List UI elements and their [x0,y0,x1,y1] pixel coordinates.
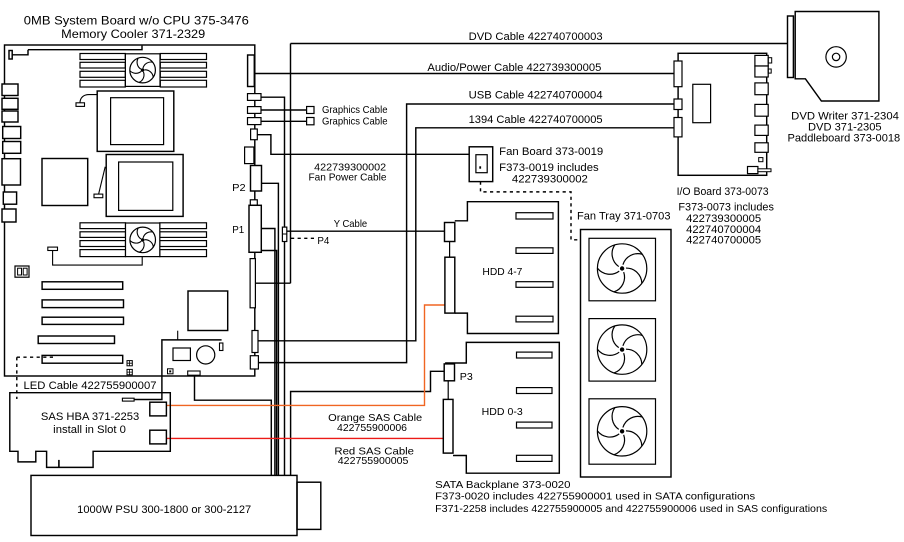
board corner connector J1 [9,51,12,60]
connector P2 [251,166,262,192]
mini header icon A [127,361,132,366]
connector P1 [249,205,261,252]
fan 2 wire [53,251,143,266]
svg-text:422755900005: 422755900005 [338,455,409,467]
svg-text:DVD 371-2305: DVD 371-2305 [808,121,882,133]
fan 1 [597,244,647,293]
wire rect1 riser to psu [261,97,285,475]
cpu fan 2 blades [130,227,156,253]
svg-text:Fan Power Cable: Fan Power Cable [309,172,387,184]
svg-text:Graphics Cable: Graphics Cable [322,104,388,116]
edge connector usb [250,356,258,369]
svg-text:Paddleboard 373-0018: Paddleboard 373-0018 [788,133,901,145]
dvd writer outline [795,12,879,102]
svg-text:USB Cable 422740700004: USB Cable 422740700004 [469,90,603,102]
svg-text:Fan Board 373-0019: Fan Board 373-0019 [499,146,603,158]
svg-text:P4: P4 [317,235,329,247]
sub-board chip [173,348,190,361]
fan 3 [597,407,647,456]
fan power connector [251,129,258,140]
HDD 0-3 long connector [443,399,453,453]
link [447,381,449,400]
svg-text:F371-2258 includes 42275590000: F371-2258 includes 422755900005 and 4227… [435,503,827,515]
fan 2 connector [48,247,58,250]
io board chip [693,84,711,122]
fan 2 [597,325,647,374]
audio connector on board edge [248,55,255,87]
pci slot 1 [42,282,123,290]
svg-text:F373-0073 includes: F373-0073 includes [678,201,774,213]
svg-text:422740700005: 422740700005 [686,235,761,247]
fan cell 1 [589,238,656,300]
svg-text:P2: P2 [232,182,246,194]
chipset square 2 [188,291,228,331]
io port 5 [755,125,768,135]
front panel header icon [15,266,29,277]
wire Y cable [287,230,445,232]
pcie key notch [58,460,60,468]
io small square [759,158,763,162]
io audio connector [674,61,682,87]
link [449,242,451,258]
wire P1b to psu [261,251,276,476]
SAS HBA card outline [10,393,171,468]
red SAS cable [166,437,443,439]
pci slot 3 [42,317,123,324]
pci slot 5 [42,355,123,363]
connector between P2 P1 [250,200,257,206]
svg-text:P3: P3 [460,371,473,383]
SAS port 0 [150,402,167,416]
HDD 4-7 long connector [445,257,455,313]
svg-text:1000W PSU 300-1800 or 300-2127: 1000W PSU 300-1800 or 300-2127 [77,504,251,516]
wire fan power [257,135,469,155]
svg-text:0MB System Board w/o CPU 375-3: 0MB System Board w/o CPU 375-3476 [24,14,249,28]
battery [197,346,215,364]
cpu 2 fan connector [94,194,103,198]
io bottom connector [748,167,758,174]
sub-board jumper [168,369,174,374]
svg-text:Y Cable: Y Cable [334,218,368,230]
cpu 2 heatsink outer [106,155,183,217]
memory slots lower right bank [160,223,207,229]
led header dashed callout [17,356,53,358]
left rear connector column [2,84,18,96]
svg-text:DVD Cable 422740700003: DVD Cable 422740700003 [469,31,603,43]
svg-text:install in Slot 0: install in Slot 0 [53,424,126,436]
graphics connector square 1 [307,107,314,114]
wire led B to psu [195,375,272,475]
io port 1 [755,55,768,66]
io 1394 connector [674,118,682,137]
cpu fan 1 frame [125,54,160,87]
edge connector 2 [248,107,262,114]
fan board inner [476,155,487,173]
led cable connector on hba [122,398,134,401]
svg-text:422755900006: 422755900006 [337,422,407,434]
io board box [678,53,767,175]
svg-text:I/O Board 373-0073: I/O Board 373-0073 [677,186,769,198]
connector P3 on backplane [444,364,454,381]
chipset square 1 [42,159,88,206]
led connector on board [188,371,200,375]
dvd disc inner [832,53,839,60]
PSU box [31,475,297,535]
HDD 4-7 slots [516,213,553,219]
edge connector 3 [248,118,262,125]
cpu 1 inner [111,98,164,145]
svg-text:SATA Backplane 373-0020: SATA Backplane 373-0020 [435,479,570,491]
wire P1 to psu [261,229,275,476]
cpu 2 fan wire [99,167,106,194]
io port 2 [755,66,768,77]
fan cell 3 [589,399,656,464]
fan board dashed callout [481,182,578,240]
dvd paddleboard bar [788,16,794,78]
svg-text:422739300005: 422739300005 [686,213,761,225]
io port 6 [755,143,768,153]
mini header icon B [127,369,132,374]
fan tray outline [581,230,672,478]
cpu fan 2 frame [126,223,160,257]
sub-board section edge [162,340,222,376]
svg-text:422739300002: 422739300002 [512,173,588,185]
pci slot 4 [38,336,114,344]
HDD 0-3 box [445,342,559,473]
board top step edge [12,46,142,55]
fan board outline [469,147,493,182]
wire dvd cable top [291,43,788,45]
cpu 1 fan connector [76,103,85,107]
wire led A to hba [134,376,162,400]
fan cell 2 [589,319,656,382]
orange SAS cable [166,305,445,405]
cpu 1 fan wire [80,95,97,103]
system board outline [5,45,255,376]
svg-text:Fan Tray 371-0703: Fan Tray 371-0703 [577,210,671,222]
dvd disc outer [826,47,846,67]
HDD 4-7 box [455,202,559,334]
wire 1394 cable [258,128,674,341]
wire audio power cable [254,73,674,75]
wire usb cable [258,104,674,363]
sub-board nub connector [220,343,223,351]
connector P4 on riser [282,227,286,241]
svg-text:SAS HBA 371-2253: SAS HBA 371-2253 [41,411,139,423]
wire graphics 1 [261,109,307,111]
cpu 2 inner [119,162,173,210]
wire P3 power [291,371,445,475]
dashed P4 callout [291,237,316,239]
HDD 4-7 Y connector [445,223,455,242]
graphics connector square 2 [307,118,314,125]
io port 3 [755,83,768,95]
io port 4 [755,104,768,116]
svg-text:Audio/Power Cable 422739300005: Audio/Power Cable 422739300005 [427,62,601,74]
svg-text:F373-0020 includes 42275590000: F373-0020 includes 422755900001 used in … [435,490,755,502]
svg-text:LED Cable 422755900007: LED Cable 422755900007 [24,380,157,392]
svg-text:Graphics Cable: Graphics Cable [322,116,388,128]
svg-text:HDD 4-7: HDD 4-7 [482,266,522,278]
memory slots upper right bank [160,54,206,60]
long thin edge connector [250,259,255,308]
HDD 0-3 slots [517,352,553,358]
wire dvd riser upper [255,44,290,284]
cpu 1 heatsink outer [97,91,174,151]
PSU side tab [297,482,321,529]
wire P2 to psu [262,183,279,475]
wire graphics 2 [261,120,307,122]
io usb connector [674,99,682,110]
memory slots upper left bank [80,54,125,60]
svg-text:1394 Cable 422740700005: 1394 Cable 422740700005 [469,114,603,126]
connector left of P2 [245,147,254,164]
memory slots lower left bank [80,223,126,229]
edge connector 1394 [252,331,258,353]
SAS port 1 [150,430,167,444]
svg-text:Memory Cooler 371-2329: Memory Cooler 371-2329 [61,27,205,41]
svg-text:P1: P1 [232,224,244,236]
edge connector 1 [248,94,262,101]
svg-text:HDD 0-3: HDD 0-3 [482,406,523,418]
sub-board segment [177,331,179,340]
pci slot 2 [42,300,123,308]
cpu fan 1 blades [130,57,156,83]
